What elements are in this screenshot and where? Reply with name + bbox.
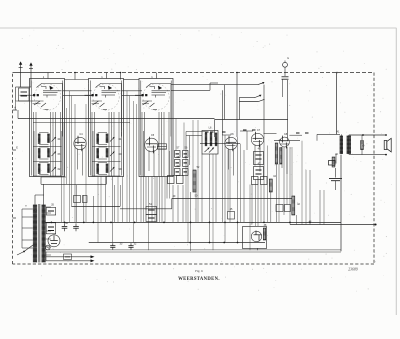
extra drop wires (density) [61, 131, 63, 222]
long wires y90.8/95.5 stage1->stage2 [63, 90, 92, 92]
coil 1L y164 [38, 164, 41, 174]
cap x131 y246 [128, 243, 133, 250]
bus y206.5 [72, 206, 121, 208]
stage 3 grid feed [135, 94, 142, 96]
antenna 2 [29, 63, 33, 87]
box x146 y206 [146, 207, 157, 215]
pilot lamp [46, 245, 51, 250]
left tick y218 [13, 217, 17, 219]
wire y119.5 [215, 119, 288, 121]
oscillator variable box [202, 131, 218, 155]
resistor x270 y179-192 [269, 179, 272, 192]
stage 1 inner screen [37, 84, 63, 137]
coil 2R y134 [106, 134, 109, 143]
coil 2L y148.5 [96, 149, 99, 159]
tube V2 envelope [93, 84, 119, 110]
stage 2 double wall [89, 81, 91, 176]
main bus y222.4 [45, 221, 341, 223]
center tall boxes [254, 152, 264, 165]
stage 2 HT feed from frame [106, 73, 108, 79]
stage 1 shield box [30, 79, 65, 177]
stage 3 shield box [139, 79, 173, 177]
long vertical x341 to corner [340, 155, 342, 252]
coil 1L y134 [38, 134, 41, 144]
box x82 y195 [83, 196, 88, 203]
bus y242.5 [89, 242, 265, 244]
tone resistor x362 [361, 141, 364, 150]
OT top/bottom stubs [340, 134, 342, 136]
bus y177 [41, 176, 66, 178]
trimmer arrow [52, 152, 57, 157]
osc winding b [210, 133, 212, 146]
drop wires to buses [74, 104, 76, 222]
mains lead diagonal + switch [24, 245, 33, 252]
stage 2 grid feed [85, 94, 92, 96]
trimmer arrow [110, 137, 115, 142]
svg-text:WEERSTANDEN.: WEERSTANDEN. [178, 277, 220, 282]
coil 1R y134 [47, 134, 50, 143]
trimmer arrow [110, 152, 115, 157]
wire y140.7 right [274, 140, 300, 142]
coil 1R y164 [47, 164, 50, 173]
HT vertical to output transformer [336, 73, 338, 135]
tube V6 [225, 137, 237, 149]
vertical x264 [263, 85, 265, 134]
stage 2 shield box [89, 79, 124, 177]
left tick y150 [13, 149, 17, 151]
heater label box [64, 254, 72, 260]
tube V2 electrodes [92, 86, 121, 110]
speaker [384, 138, 391, 152]
bus y198.5 [172, 198, 292, 200]
coil 2R y148.5 [106, 149, 109, 158]
long vertical x237 [236, 73, 238, 138]
cap x64 y227 [62, 223, 68, 231]
resistor x333 [332, 157, 335, 167]
svg-text:G: G [287, 57, 289, 60]
coil 1R y148.5 [47, 149, 50, 158]
resistor stack right of stage3 [175, 151, 181, 158]
chassis frame dashed border [13, 73, 375, 265]
osc arrow 2 [209, 148, 214, 153]
transformer right leads [46, 206, 51, 208]
tube V1 envelope [34, 84, 60, 110]
tube V7 [251, 133, 263, 145]
cap x112 y246 [110, 243, 115, 250]
transformer left leads [22, 208, 33, 210]
transformer top leads [34, 195, 36, 205]
speaker wires [349, 134, 386, 136]
osc winding c [215, 133, 217, 146]
stage 2 internal drop wires [91, 112, 93, 177]
mains transformer primary [33, 205, 37, 262]
page edge right (gray) [395, 28, 397, 315]
stage 1 grid feed [20, 94, 34, 96]
stage 1 double wall [30, 81, 32, 176]
inter-stage wire y79.5 [65, 79, 89, 81]
coil 2R y164 [106, 164, 109, 173]
resistor in output box [263, 228, 265, 240]
band switch wire 3 [239, 101, 258, 103]
box x276 y204 [276, 205, 283, 212]
frame junction dots [74, 72, 76, 74]
stage 3 internal drop wires [141, 112, 143, 177]
osc arrow 1 [205, 148, 210, 153]
hatch box right of V5 [158, 144, 167, 149]
heater wires with arrows [46, 256, 93, 258]
earth terminal left [13, 109, 18, 111]
tube V5 [145, 138, 159, 152]
antenna input wires [16, 86, 32, 88]
cap x76 y227 [73, 223, 79, 231]
long wire y122.5 [33, 122, 130, 124]
stage 3 inner screen [146, 84, 171, 137]
antenna coupling box [19, 88, 30, 101]
stage 1 internal drop wires [33, 112, 35, 177]
coil 2L y164 [96, 164, 99, 174]
resistor x293 [292, 196, 295, 215]
cap box 2 [46, 223, 56, 234]
bus y184.3 [41, 183, 106, 185]
trimmer arrow [110, 167, 115, 172]
vertical x287.7 [287, 80, 289, 120]
box x284 y204 [285, 205, 291, 212]
dark blob component x329-335 y161-165 [329, 161, 336, 166]
tube V3 electrodes [142, 86, 170, 110]
bus y224.5 right [290, 224, 376, 226]
ladder row connectors [92, 145, 121, 147]
hatched resistor x280.5 [280, 148, 282, 165]
tube V9 [251, 231, 261, 241]
band switch wire 1 [225, 84, 258, 86]
tube V1 electrodes [33, 86, 61, 110]
osc winding a [205, 133, 207, 146]
stage 1 HT feed from frame [47, 73, 49, 79]
wire y143.7 [200, 143, 240, 145]
mains transformer secondary [42, 205, 46, 262]
page edge top (gray) [0, 27, 397, 29]
long wires stage2->stage3 [122, 90, 143, 92]
long wire y118.5 [18, 118, 215, 120]
switch verticals [224, 85, 226, 120]
scan speckle (noise) [14, 30, 392, 292]
bus y208.8 [120, 208, 172, 210]
box x227 y211 [228, 212, 235, 220]
wire from stage3 to switch area [171, 84, 225, 86]
pickup terminal [283, 62, 288, 67]
tube V4 [74, 137, 86, 149]
tube V8 [280, 137, 290, 147]
hatched resistor x276 [275, 143, 278, 164]
stage 1 grid lines y101/104 [33, 100, 44, 102]
band switch wire 2 [239, 97, 255, 99]
stage 3 grid lines y101/104 [142, 100, 152, 102]
stage 3 HT feed from frame [156, 73, 158, 79]
component cluster x165-200 y170-195 [168, 176, 175, 184]
vertical x336 down [335, 154, 337, 164]
dark marks in boxes [256, 154, 262, 156]
coil 1L y148.5 [38, 149, 41, 159]
box x146 y214 [146, 215, 157, 222]
long wire y101 [16, 100, 34, 102]
trimmer arrow [52, 137, 57, 142]
frame feeds x75/x120.5 [74, 73, 76, 80]
output transformer primary [340, 136, 343, 154]
double bus y250/252 [46, 249, 341, 251]
tall resistor x194 [193, 170, 196, 192]
antenna 1 [19, 62, 23, 87]
output stage box [243, 227, 267, 249]
svg-text:23689: 23689 [348, 267, 358, 271]
stage 2 inner screen [96, 84, 122, 137]
tube leads down [77, 149, 79, 170]
link wires [157, 146, 167, 148]
output transformer secondary [347, 136, 351, 154]
stage 2 grid lines y101/104 [92, 100, 103, 102]
tube V3 envelope [143, 84, 169, 110]
stage 3 double wall [140, 81, 142, 176]
cap box 1 [46, 208, 56, 216]
rectifier tube [48, 235, 60, 247]
trimmer arrow [52, 167, 57, 172]
wire y134.4 [317, 133, 340, 135]
electrolytic cap right [335, 168, 337, 178]
svg-text:Fig. 6: Fig. 6 [195, 269, 203, 273]
pickup capacitor [282, 76, 289, 78]
box x73 y195 [74, 196, 81, 203]
ladder row connectors [33, 145, 62, 147]
dark label marks row y131-134 [205, 131, 209, 133]
core lines [38, 204, 40, 263]
coil 2L y134 [96, 134, 99, 144]
